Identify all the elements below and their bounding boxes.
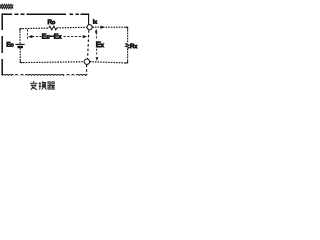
converter box left edge (chain line) (1, 13, 3, 75)
svg-text:Eo: Eo (6, 42, 13, 49)
wire corner joints (20, 27, 128, 63)
voltage arrow Ex (dashed shaft, upper) (95, 33, 97, 40)
wire: top horizontal (left part, to resistor Ro) (20, 27, 49, 30)
wire: left vertical (battery to bottom corner) (19, 48, 21, 62)
resistor Ro (49, 26, 57, 30)
wire: load branch right vertical (bottom part) (127, 49, 129, 63)
svg-text:Ix: Ix (93, 19, 98, 26)
hatch mark (top-left scan artifact) (0, 4, 13, 8)
dimension arrow Eo-Ex (left arrowhead) (28, 35, 32, 38)
dimension line Eo-Ex (32, 36, 83, 38)
converter box right edge, dashed segment between terminals (88, 30, 89, 59)
kanji 器 (47, 82, 55, 89)
wire: left vertical (top corner to battery) (19, 29, 21, 44)
terminal (bottom) (84, 59, 89, 64)
svg-text:Rx: Rx (130, 43, 137, 50)
wire: bottom horizontal (left corner to bottom terminal) (20, 61, 84, 64)
resistor Rx (126, 43, 130, 49)
voltage arrow Ex (down arrowhead) (96, 57, 99, 61)
svg-text:Ro: Ro (48, 19, 56, 26)
wire: top right (top terminal to load branch) (92, 26, 127, 28)
current arrow Ix (arrowhead on top right wire) (101, 26, 105, 29)
terminal (top) (87, 25, 92, 30)
label 変換器 (converter), kanji drawn as paths (30, 81, 55, 90)
voltage source Eo (battery plates) (16, 43, 25, 45)
svg-text:Eo−Ex: Eo−Ex (42, 33, 62, 40)
converter box right edge, segment above top terminal (88, 13, 90, 24)
svg-text:Ex: Ex (96, 40, 105, 49)
wire: load branch right vertical (top part) (127, 27, 129, 43)
kanji 変 (30, 81, 37, 90)
dimension witness line (left, on wire below top-left corner) (26, 29, 28, 40)
wire: bottom horizontal (bottom terminal to load branch) (90, 62, 128, 63)
converter box top edge (chain line) (2, 13, 89, 15)
kanji 換 (39, 81, 47, 89)
voltage arrow Ex (dashed shaft, lower) (96, 49, 98, 56)
dimension arrow Eo-Ex (right arrowhead) (83, 35, 87, 38)
wire: top horizontal (resistor Ro to top terminal) (57, 26, 87, 29)
converter box right edge, segment below bottom terminal (86, 65, 88, 76)
voltage arrow Ex (up arrowhead) (95, 29, 98, 33)
converter box bottom edge (wavy chain line) (2, 74, 87, 77)
